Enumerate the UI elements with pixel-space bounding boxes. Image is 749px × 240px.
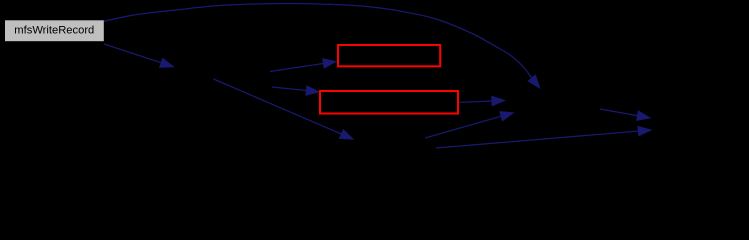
svg-text:mfsWriteRecord: mfsWriteRecord [14, 25, 94, 37]
